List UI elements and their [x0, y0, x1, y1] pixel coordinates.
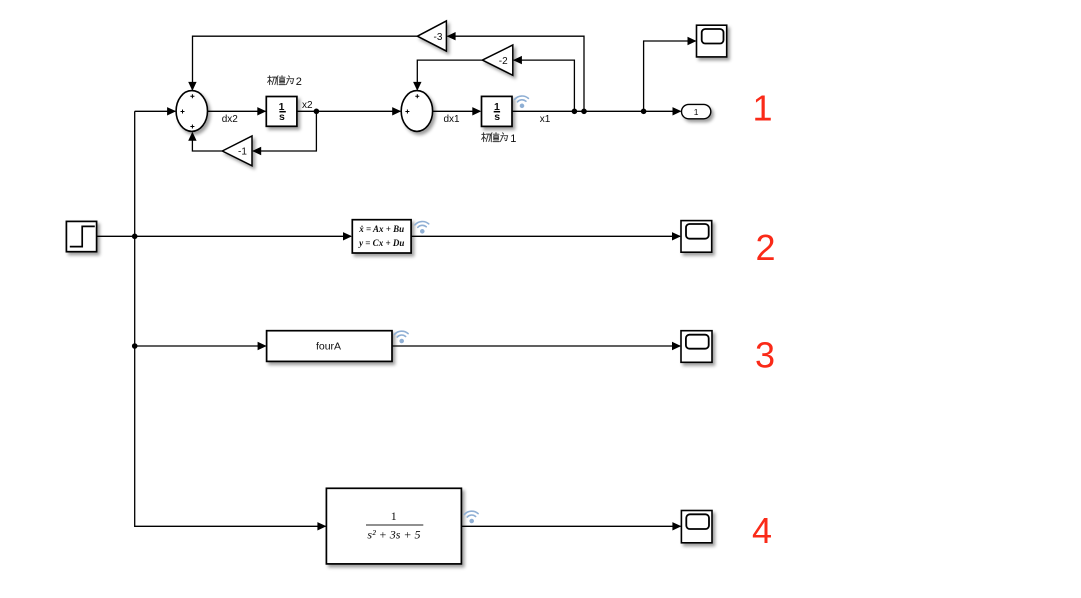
gain G1 (-1): [222, 136, 252, 166]
svg-text:2: 2: [755, 227, 775, 268]
svg-text:4: 4: [752, 510, 772, 551]
junction trunk row3 node: [132, 343, 138, 349]
arrow into scope3: [672, 342, 681, 350]
block name 初值为1 (drawn strokes): [482, 133, 517, 145]
wire: x1 branch up into gain -2 input: [514, 60, 575, 111]
arrow into gain -2: [513, 56, 522, 64]
arrow into scope4: [672, 522, 681, 530]
scope SC1: [697, 25, 727, 57]
integrator block 初值为1: [482, 96, 513, 126]
gain G2 (-2): [482, 45, 512, 75]
svg-text:dx2: dx2: [222, 114, 239, 125]
wifi badge on fourA: [394, 331, 409, 344]
wire: fourA output to scope3: [392, 345, 680, 347]
block name 初值为2 (drawn strokes): [268, 76, 302, 88]
svg-text:x1: x1: [540, 114, 551, 125]
annotation 3 (red): [755, 335, 775, 376]
svg-text:s² + 3s + 5: s² + 3s + 5: [367, 528, 420, 542]
svg-text:fourA: fourA: [316, 341, 341, 353]
svg-text:-3: -3: [434, 32, 443, 43]
svg-text:2: 2: [296, 76, 302, 88]
arrow into fourA: [258, 342, 267, 350]
svg-text:x2: x2: [302, 100, 313, 111]
wire: transfer fcn output to scope4: [461, 525, 680, 527]
arrow into gain -3: [447, 32, 456, 40]
scope SC2: [681, 221, 712, 253]
step source block: [66, 221, 96, 251]
annotation 1 (red): [752, 87, 772, 128]
arrow into integrator2: [472, 107, 481, 115]
transfer fcn block 1/(s^2+3s+5): [326, 488, 461, 564]
node label dx2: [222, 114, 239, 125]
outport 1: [682, 104, 711, 118]
wire: step output to state-space: [97, 235, 351, 237]
arrow into integrator1: [257, 107, 266, 115]
node label x1: [540, 114, 551, 125]
annotation 2 (red): [755, 227, 775, 268]
svg-text:s: s: [279, 111, 285, 123]
junction x2 node: [314, 109, 320, 115]
wire: trunk to sum1 left input: [135, 110, 176, 112]
node label dx1: [443, 114, 460, 125]
svg-text:1: 1: [510, 133, 516, 145]
wifi badge on state-space: [415, 221, 430, 234]
arrow into scope1: [688, 37, 697, 45]
sum S2: [401, 91, 432, 132]
arrow into state-space: [343, 232, 352, 240]
subsystem fourA: [267, 331, 392, 362]
svg-text:s: s: [494, 111, 500, 123]
sum S1: [176, 91, 207, 132]
arrow into transfer fcn: [317, 522, 326, 530]
svg-text:ẋ = Ax + Bu: ẋ = Ax + Bu: [358, 224, 404, 234]
wire: x2 branch down into gain -1 input: [253, 111, 316, 151]
arrow into sum1 bottom: [188, 132, 196, 141]
wire: gain -2 output to sum2 top: [417, 60, 482, 89]
scope SC3: [681, 331, 712, 363]
node label x2: [302, 100, 313, 111]
wire: x2 from integrator1 to sum2: [297, 110, 400, 112]
arrow into sum2 left: [392, 107, 401, 115]
svg-text:1: 1: [752, 87, 772, 128]
junction x1 node to gain -3: [581, 109, 587, 115]
wire: sum1 output dx2 to integrator1: [207, 110, 265, 112]
wifi badge on integrator2: [514, 96, 529, 109]
svg-text:-2: -2: [499, 56, 508, 67]
wire: trunk vertical from sum1 level down to row4: [135, 111, 326, 526]
annotation 4 (red): [752, 510, 772, 551]
arrow into gain -1: [252, 147, 261, 155]
arrow into outport: [673, 107, 682, 115]
arrow into scope2: [672, 232, 681, 240]
wire: gain -3 output to sum1 top: [193, 36, 418, 89]
wifi badge on transfer fcn: [464, 511, 479, 524]
svg-text:y = Cx + Du: y = Cx + Du: [358, 238, 404, 248]
arrow into sum1 left: [167, 107, 176, 115]
svg-text:dx1: dx1: [443, 114, 460, 125]
wire: state-space output to scope2: [412, 235, 681, 237]
gain G3 (-3): [417, 21, 446, 51]
arrow into sum1 top: [188, 82, 196, 91]
wire: trunk branch to fourA: [135, 345, 266, 347]
state-space block: [352, 220, 411, 253]
arrow into sum2 top: [413, 82, 421, 91]
integrator block 初值为2: [266, 97, 297, 127]
junction x1 node to gain -2: [572, 109, 578, 115]
wire: x1 branch up to scope1: [644, 41, 696, 111]
wire: x1 branch up into gain -3 input: [447, 36, 584, 111]
svg-text:1: 1: [694, 107, 699, 117]
wire: gain -1 output to sum1 bottom: [192, 133, 222, 151]
svg-text:1: 1: [391, 509, 397, 523]
wire: x1 from integrator2 to outport: [512, 110, 681, 112]
scope SC4: [681, 511, 712, 543]
svg-text:-1: -1: [238, 147, 247, 158]
junction x1 node to scope1: [641, 109, 647, 115]
svg-text:3: 3: [755, 335, 775, 376]
wire: sum2 output dx1 to integrator2: [433, 110, 481, 112]
junction step output node: [132, 234, 138, 240]
